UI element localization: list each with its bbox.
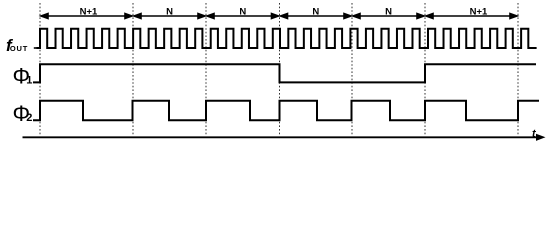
svg-text:N: N xyxy=(166,6,173,17)
svg-text:N: N xyxy=(312,6,319,17)
svg-text:N: N xyxy=(239,6,246,17)
svg-text:OUT: OUT xyxy=(10,44,28,53)
svg-text:1: 1 xyxy=(26,75,32,87)
svg-text:N: N xyxy=(385,6,392,17)
svg-text:N+1: N+1 xyxy=(470,6,488,17)
svg-text:N+1: N+1 xyxy=(80,6,98,17)
svg-text:2: 2 xyxy=(26,112,32,124)
